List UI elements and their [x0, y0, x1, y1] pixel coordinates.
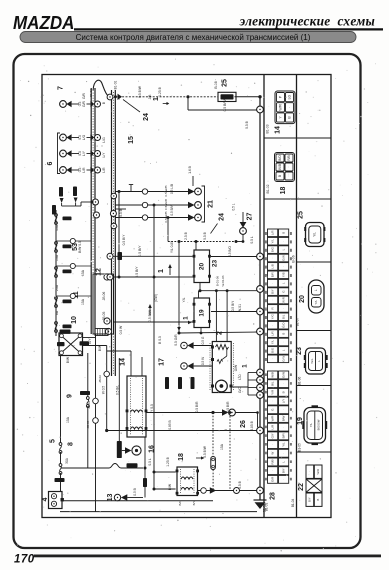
wire y412 solenoid to diode 26: [146, 412, 213, 414]
diode 26: [213, 409, 259, 427]
fuse F2 rating chip: [63, 245, 72, 249]
connector circle T5 on trunk: [257, 328, 264, 335]
svg-text:Y/L 0.85: Y/L 0.85: [170, 241, 174, 253]
sensor out fan wires: [231, 373, 257, 396]
circle on x106: [104, 371, 110, 377]
divider under cell 19: [297, 451, 332, 453]
bus loop end circle: [107, 94, 113, 100]
wire manifold drop x179: [178, 242, 180, 334]
bus box circles: [104, 274, 110, 280]
svg-text:B/W: B/W: [281, 415, 285, 421]
wire relay19 bottom link: [179, 332, 257, 333]
svg-text:B-06: B-06: [291, 255, 295, 262]
wire into relay18 lower left: [154, 488, 176, 490]
connector circle T6 on trunk: [257, 369, 264, 376]
relay block 18: [176, 467, 199, 496]
svg-text:B1-05: B1-05: [297, 443, 301, 452]
svg-text:W/R: W/R: [316, 469, 320, 475]
solenoid feed risers: [130, 351, 132, 376]
svg-text:0.5 L: 0.5 L: [148, 458, 152, 465]
svg-text:1.6 B: 1.6 B: [188, 166, 192, 173]
svg-text:0.5 B/R: 0.5 B/R: [195, 401, 199, 413]
svg-text:·: ·: [281, 479, 285, 480]
svg-text:R/B: R/B: [287, 155, 291, 160]
wire chips to bus: [61, 203, 63, 206]
svg-text:·: ·: [281, 266, 285, 267]
svg-text:·: ·: [281, 383, 285, 384]
arrow into fuse 18: [196, 457, 201, 459]
svg-text:0.85 B: 0.85 B: [168, 420, 172, 429]
svg-text:B: B: [281, 391, 285, 393]
svg-text:10A: 10A: [55, 254, 59, 261]
svg-text:0.5 B: 0.5 B: [245, 120, 249, 128]
svg-text:B1-01: B1-01: [113, 80, 117, 89]
svg-text:J/B: J/B: [148, 94, 152, 100]
sensor top risers: [215, 294, 217, 342]
svg-text:W/L: W/L: [310, 358, 314, 364]
relay block 20: [193, 250, 211, 283]
wire right vertical trunk: [259, 97, 261, 500]
bus bar right rail pair: [112, 90, 116, 376]
svg-text:B 0.5: B 0.5: [158, 336, 162, 344]
battery 4: [49, 492, 64, 509]
bus bar left rail pair: [91, 88, 95, 334]
left connector row 6b: circle, diode arrow and wire label: [60, 150, 101, 157]
svg-text:23: 23: [212, 260, 219, 268]
svg-text:0.5 B/W: 0.5 B/W: [203, 445, 207, 458]
svg-text:B/O: B/O: [278, 155, 282, 161]
connector pin table 18: [275, 153, 295, 182]
diode 27 with stub: [236, 212, 246, 243]
svg-text:W/B: W/B: [270, 372, 274, 378]
svg-text:0.5 B/W: 0.5 B/W: [170, 204, 174, 215]
svg-text:·: ·: [270, 257, 274, 258]
svg-text:Y/L: Y/L: [270, 339, 274, 344]
bus top loop: [93, 80, 108, 96]
svg-text:B/Y: B/Y: [308, 497, 312, 502]
wire relay20 out y256: [211, 256, 257, 258]
connector pin table 20-23: [265, 229, 292, 363]
svg-text:L/Y: L/Y: [82, 150, 86, 156]
diode 13: [114, 494, 143, 501]
svg-text:B1-02: B1-02: [266, 184, 270, 193]
connector circle T8 on trunk: [257, 384, 264, 391]
ignition switch block 9: [59, 333, 83, 356]
connector circle T11 on trunk: [257, 487, 264, 494]
wire manifold dotted y241: [168, 241, 236, 243]
junction box small rect: [95, 329, 108, 336]
bracket 21: [202, 186, 205, 222]
svg-text:B/O: B/O: [178, 500, 182, 506]
svg-text:L/R: L/R: [270, 231, 274, 236]
connector column left boundary: [263, 75, 265, 518]
connector circle T9 on trunk: [257, 392, 264, 399]
svg-text:24: 24: [143, 113, 150, 121]
sensor block 2 throttle body: [210, 342, 234, 393]
svg-text:W 0.5: W 0.5: [101, 386, 105, 395]
svg-text:15A: 15A: [220, 443, 224, 450]
branch wire fuse row 3: [56, 295, 70, 297]
diode into sensor row1: [181, 336, 212, 349]
svg-text:19: 19: [297, 417, 304, 425]
connector column inner divider: [296, 75, 298, 518]
svg-text:·: ·: [287, 166, 291, 167]
svg-text:B1-06: B1-06: [297, 377, 301, 386]
svg-text:L/G: L/G: [82, 134, 86, 140]
ignition switch chips: [60, 330, 71, 334]
svg-text:0.5 B: 0.5 B: [238, 480, 242, 488]
svg-text:0.5 W/B: 0.5 W/B: [164, 185, 168, 196]
svg-text:·: ·: [281, 241, 285, 242]
svg-text:·: ·: [270, 444, 274, 445]
fuse F4 rating chip: [63, 300, 72, 304]
svg-text:1.25 B: 1.25 B: [166, 456, 170, 466]
svg-text:B/Y: B/Y: [281, 468, 285, 473]
gray title bar: [20, 32, 356, 43]
fuse F3 rating chip: [63, 270, 72, 274]
svg-text:·: ·: [270, 325, 274, 326]
svg-text:B1-04: B1-04: [291, 499, 295, 508]
wire junction box feed x119: [118, 192, 120, 278]
wire into relay20 left: [179, 276, 193, 278]
svg-text:L: L: [314, 289, 318, 291]
svg-text:8: 8: [67, 442, 74, 446]
svg-text:0.5 B: 0.5 B: [203, 231, 207, 239]
svg-text:B: B: [281, 232, 285, 234]
svg-text:R/B: R/B: [270, 459, 274, 464]
svg-text:G/R: G/R: [82, 92, 86, 98]
inner schematic frame: [42, 75, 331, 518]
svg-text:21: 21: [207, 200, 214, 208]
svg-text:14: 14: [119, 358, 126, 366]
svg-text:B/W: B/W: [168, 483, 172, 490]
fuse F1 rating chip: [63, 217, 72, 221]
svg-text:G/O: G/O: [281, 322, 285, 328]
svg-text:G/R: G/R: [82, 100, 86, 106]
diode D3 of group 21: [115, 211, 201, 222]
svg-text:28: 28: [269, 492, 276, 500]
svg-text:Y/L: Y/L: [270, 239, 274, 244]
svg-text:40A: 40A: [55, 224, 59, 231]
fuse capsule above relay 18: [211, 457, 216, 470]
svg-text:26: 26: [240, 420, 247, 428]
svg-text:0.5 B/L: 0.5 B/L: [115, 385, 119, 395]
svg-text:0.5 B/R: 0.5 B/R: [226, 401, 230, 413]
svg-text:170: 170: [14, 554, 35, 566]
svg-text:0.5 L: 0.5 L: [231, 203, 235, 210]
diode D2 of group 21: [115, 199, 201, 210]
svg-text:L/O: L/O: [238, 374, 242, 380]
wire y468 run: [61, 467, 110, 469]
wire y256 bus to relay 20: [107, 253, 113, 259]
svg-text:10: 10: [71, 316, 78, 324]
svg-text:B/L: B/L: [270, 381, 274, 386]
svg-text:Y/L: Y/L: [182, 297, 186, 302]
svg-text:1: 1: [242, 364, 249, 368]
svg-text:L/R: L/R: [270, 424, 274, 430]
svg-text:0.5 B/Y: 0.5 B/Y: [122, 234, 126, 246]
junction at trunk top: [258, 95, 261, 98]
diode 21 feed wire: [192, 176, 194, 186]
svg-text:Y/L: Y/L: [309, 422, 313, 427]
wire x95 vertical below box: [95, 334, 97, 512]
svg-text:6: 6: [47, 161, 54, 165]
svg-text:·: ·: [281, 308, 285, 309]
connector symbol 19: [302, 405, 327, 445]
relay chip label left B: [73, 187, 78, 203]
svg-text:Y/G: Y/G: [270, 314, 274, 320]
fuse 8 on chain: [80, 353, 90, 468]
junction top feed: [186, 95, 189, 98]
svg-text:0.5 B/Y: 0.5 B/Y: [231, 300, 235, 311]
svg-text:B/Y: B/Y: [88, 338, 92, 344]
fuse F5: [55, 322, 58, 325]
reference arrow up right: [168, 264, 172, 275]
svg-text:7: 7: [57, 86, 64, 90]
wire manifold drop x196: [195, 242, 197, 251]
svg-text:20: 20: [198, 263, 205, 271]
svg-text:B/G: B/G: [270, 246, 274, 252]
svg-text:Y/L: Y/L: [314, 300, 318, 305]
svg-text:18: 18: [280, 187, 287, 195]
relay19 left junction arrow: [188, 321, 192, 325]
svg-text:G/R: G/R: [270, 476, 274, 482]
svg-text:14: 14: [274, 126, 281, 134]
fuse F5 rating chip: [63, 325, 72, 329]
svg-text:·: ·: [270, 401, 274, 402]
svg-text:25: 25: [221, 79, 228, 87]
svg-text:MAZDA: MAZDA: [13, 12, 74, 33]
fuse F3: [55, 267, 58, 270]
connector circle T3 on trunk: [257, 286, 264, 293]
circles on x95: [93, 398, 99, 404]
header rule line: [74, 28, 383, 30]
svg-text:0.5 B/Y: 0.5 B/Y: [135, 266, 139, 278]
svg-text:B/R: B/R: [281, 433, 285, 439]
svg-text:23: 23: [296, 347, 303, 355]
ignition out wires: [83, 337, 96, 339]
wire y468 drop: [144, 468, 146, 478]
svg-text:0.5 B/O: 0.5 B/O: [228, 246, 232, 257]
svg-text:15A: 15A: [81, 298, 85, 305]
svg-text:Y 0.5: Y 0.5: [150, 404, 154, 412]
svg-text:G/W: G/W: [234, 364, 238, 371]
wire relay19 top riser: [198, 291, 200, 298]
svg-text:16: 16: [148, 445, 155, 453]
svg-text:Y/L: Y/L: [313, 232, 317, 237]
svg-text:5: 5: [49, 439, 56, 443]
small arrow ref 15: [163, 103, 167, 105]
svg-text:20: 20: [299, 295, 306, 303]
wire y276 bus to relay column: [107, 274, 113, 280]
wire relay20 bottom to trunk y290: [199, 283, 201, 291]
fuse chain vertical wire: [55, 210, 57, 336]
svg-text:JB-05: JB-05: [102, 312, 106, 321]
svg-text:B/R: B/R: [270, 272, 274, 277]
wire y430 to trunk: [107, 430, 257, 432]
wire into relay18 upper left: [154, 471, 176, 473]
svg-text:·: ·: [270, 470, 274, 471]
svg-text:L/Y: L/Y: [102, 152, 106, 158]
divider under cell 23: [297, 385, 332, 387]
branch to connector circle y110: [187, 97, 189, 110]
wire relay18 out y490: [198, 490, 257, 492]
connector symbol 25: [304, 223, 325, 247]
svg-text:13: 13: [107, 494, 114, 502]
svg-text:Система контроля двигателя с м: Система контроля двигателя с механическо…: [76, 33, 311, 42]
diode D1 of group 21: [115, 185, 201, 196]
solenoid block with coils: [126, 376, 148, 437]
wire y511 run: [60, 511, 257, 513]
svg-text:G/O: G/O: [238, 387, 242, 393]
svg-text:2.5 B: 2.5 B: [184, 231, 188, 239]
svg-text:W-01-06: W-01-06: [221, 275, 225, 286]
svg-text:0.5 B/W: 0.5 B/W: [223, 99, 227, 112]
wire y501 battery run: [62, 500, 213, 502]
wire fuse to relay row: [212, 470, 214, 491]
connector pin table 28: [265, 371, 292, 483]
svg-text:·: ·: [270, 283, 274, 284]
svg-text:W-01: W-01: [238, 304, 242, 312]
svg-text:15: 15: [128, 136, 135, 144]
bus circles mid: [93, 199, 99, 205]
svg-text:B1-03: B1-03: [89, 89, 93, 97]
svg-text:·: ·: [308, 471, 312, 472]
relay chip label left A: [59, 187, 64, 203]
connector circle T2 on trunk: [257, 253, 264, 260]
svg-text:Y/L: Y/L: [281, 442, 285, 447]
svg-text:2: 2: [216, 331, 223, 335]
svg-text:·: ·: [281, 409, 285, 410]
svg-text:9: 9: [66, 394, 73, 398]
connector circle T1 on trunk: [257, 106, 264, 113]
svg-text:·: ·: [281, 453, 285, 454]
connector pin table 14: [275, 91, 295, 124]
svg-text:1: 1: [183, 316, 190, 320]
wire relay19 out y311: [211, 311, 257, 313]
svg-text:B: B: [316, 499, 320, 501]
svg-text:20A: 20A: [55, 284, 59, 291]
fuse F2: [55, 242, 58, 245]
reference arrow 1 up: [148, 304, 152, 315]
divider under cell 25: [297, 261, 332, 263]
svg-text:30A: 30A: [65, 457, 69, 464]
svg-text:15A: 15A: [81, 269, 85, 276]
chip labels near sensor: [165, 377, 169, 389]
svg-text:0.5 G/R: 0.5 G/R: [174, 334, 178, 346]
relay chip label left C: [52, 205, 56, 215]
svg-text:18: 18: [178, 453, 185, 461]
wire manifold drop x168: [167, 218, 169, 242]
svg-text:·: ·: [287, 107, 291, 108]
feed arrow right: [118, 94, 123, 100]
svg-text:12: 12: [95, 268, 102, 276]
relay block 19: [193, 298, 211, 328]
svg-text:G/W: G/W: [281, 372, 285, 378]
svg-text:B/Y: B/Y: [192, 501, 196, 506]
manifold diagonal callout to label 24: [211, 224, 218, 234]
svg-text:0.5 G: 0.5 G: [201, 336, 205, 344]
svg-text:B/W 0.5: B/W 0.5: [78, 241, 82, 253]
fuse F1: [55, 214, 58, 217]
svg-text:B/G: B/G: [270, 347, 274, 353]
svg-text:·: ·: [270, 358, 274, 359]
svg-text:4: 4: [42, 497, 49, 501]
svg-text:W/B: W/B: [278, 164, 282, 170]
svg-text:R: R: [270, 307, 274, 309]
left connector row 6c: circle, diode arrow and wire label: [60, 167, 101, 174]
wire top feed dotted segment: [115, 96, 218, 98]
connector circle T4 on trunk: [257, 308, 264, 315]
svg-text:G/W: G/W: [281, 255, 285, 261]
motor 16 symbol: [125, 446, 141, 455]
svg-text:L/G: L/G: [102, 137, 106, 143]
svg-text:W/R: W/R: [281, 297, 285, 303]
wire top feed solid segment: [235, 96, 261, 98]
svg-text:B/Y: B/Y: [270, 289, 274, 294]
connector symbol 23: [304, 348, 328, 374]
svg-text:B1-07: B1-07: [295, 318, 299, 327]
svg-text:Y/R: Y/R: [270, 389, 274, 395]
svg-text:0.5 W: 0.5 W: [201, 357, 205, 365]
svg-text:Y/B: Y/B: [281, 272, 285, 277]
diode into sensor row2: [181, 357, 212, 370]
svg-text:1.25 B: 1.25 B: [158, 86, 162, 96]
svg-text:G/W: G/W: [281, 356, 285, 362]
svg-text:0.5 B: 0.5 B: [133, 488, 137, 495]
svg-text:1: 1: [158, 269, 165, 273]
svg-text:W/R: W/R: [270, 415, 274, 422]
connector circle T10 on trunk: [257, 427, 264, 434]
svg-text:B/G/G/W: B/G/G/W: [317, 419, 321, 430]
svg-text:L/R: L/R: [102, 167, 106, 173]
svg-text:·: ·: [270, 299, 274, 300]
wire x106 vertical: [106, 346, 108, 431]
outer rounded border: [14, 54, 361, 548]
divider under cell 14: [264, 137, 331, 139]
bus side chip: [118, 252, 123, 260]
bottom rule: [34, 555, 381, 558]
svg-text:L/R: L/R: [270, 331, 274, 336]
svg-text:LG: LG: [287, 94, 291, 99]
left connector row 6a: circle, diode arrow and wire label: [60, 134, 101, 141]
down arrow reference 1: [177, 322, 181, 331]
riser solenoid to y468 wire: [144, 437, 146, 468]
svg-text:0.5 B: 0.5 B: [119, 208, 123, 216]
fuse block 25 top: [218, 92, 236, 101]
svg-text:B: B: [278, 175, 282, 177]
svg-text:B/W: B/W: [66, 356, 70, 363]
svg-text:G/Y: G/Y: [270, 433, 274, 438]
svg-text:17: 17: [158, 358, 165, 366]
wire to motor 16: [118, 358, 120, 441]
svg-text:(GW): (GW): [154, 294, 158, 302]
svg-text:L/Y: L/Y: [281, 399, 285, 404]
label 24 with callout: [123, 100, 150, 121]
wire y322 bus to relay 19: [113, 321, 194, 323]
svg-text:W: W: [270, 452, 274, 455]
chain to battery: [55, 356, 65, 492]
branch wire fuse row 1: [56, 240, 70, 242]
divider under cell 20: [297, 330, 332, 332]
svg-text:0.5 W: 0.5 W: [119, 325, 123, 334]
wire diode26 down to fuse: [212, 413, 214, 457]
svg-text:0.5 L/B: 0.5 L/B: [170, 184, 174, 194]
svg-text:15A: 15A: [66, 416, 70, 423]
wire junction box feed x154: [153, 205, 155, 489]
svg-text:B/L: B/L: [281, 314, 285, 319]
svg-text:0.5 W/B: 0.5 W/B: [164, 199, 168, 210]
